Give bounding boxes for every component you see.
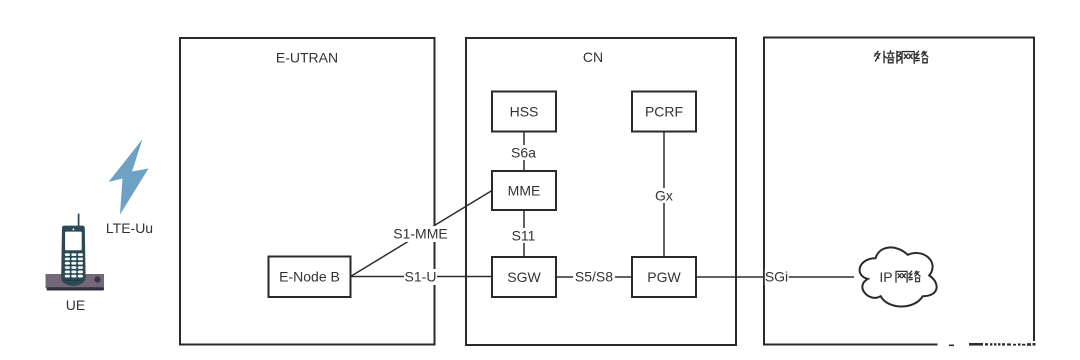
- container box E-UTRAN: [180, 38, 435, 345]
- svg-text:PGW: PGW: [647, 269, 681, 285]
- svg-text:S1-MME: S1-MME: [393, 226, 447, 242]
- label S1-U: [404, 269, 437, 286]
- svg-text:PCRF: PCRF: [645, 104, 683, 120]
- wire S11 from MME to SGW: [523, 210, 525, 257]
- lightning bolt LTE-Uu: [109, 139, 149, 215]
- cloud IP网络: [860, 247, 937, 306]
- wire S1-MME diagonal from E-Node B to MME: [351, 191, 493, 277]
- wire S5/S8 from SGW to PGW: [556, 276, 632, 278]
- svg-text:Gx: Gx: [655, 188, 673, 204]
- watermark remnant over bottom border: [938, 341, 1038, 349]
- box MME: [492, 171, 556, 210]
- svg-text:E-UTRAN: E-UTRAN: [276, 50, 338, 66]
- wire S1-U from E-Node B to SGW: [351, 276, 493, 278]
- box PGW: [632, 257, 696, 297]
- box HSS: [492, 92, 556, 132]
- svg-text:HSS: HSS: [510, 104, 539, 120]
- wire Gx from PCRF to PGW: [663, 132, 665, 258]
- svg-text:E-Node B: E-Node B: [279, 269, 340, 285]
- svg-text:S1-U: S1-U: [405, 269, 437, 285]
- label Gx: [653, 188, 675, 204]
- box PCRF: [632, 92, 696, 132]
- UE phone icon: handset: [61, 214, 85, 286]
- label S6a: [511, 145, 536, 161]
- svg-text:IP: IP: [879, 269, 892, 285]
- svg-text:S5/S8: S5/S8: [575, 269, 613, 285]
- label SGi: [765, 269, 789, 286]
- UE phone icon: dock base: [46, 274, 105, 291]
- svg-text:MME: MME: [508, 183, 541, 199]
- svg-text:SGi: SGi: [765, 269, 788, 285]
- container box CN: [466, 38, 736, 345]
- label S1-MME: [392, 226, 449, 243]
- box SGW: [492, 257, 556, 297]
- wire S6a from HSS to MME: [523, 132, 525, 172]
- svg-text:CN: CN: [583, 49, 603, 65]
- label S5/S8: [573, 269, 615, 286]
- label S11: [511, 228, 537, 244]
- svg-text:S11: S11: [512, 228, 536, 244]
- svg-text:SGW: SGW: [507, 269, 541, 285]
- wire SGi from PGW to IP cloud: [696, 276, 854, 278]
- container box 外部网络 (external network): [764, 38, 1034, 345]
- svg-text:UE: UE: [66, 297, 85, 313]
- svg-text:LTE-Uu: LTE-Uu: [106, 220, 153, 236]
- box E-Node B: [269, 257, 351, 298]
- svg-text:S6a: S6a: [511, 145, 536, 161]
